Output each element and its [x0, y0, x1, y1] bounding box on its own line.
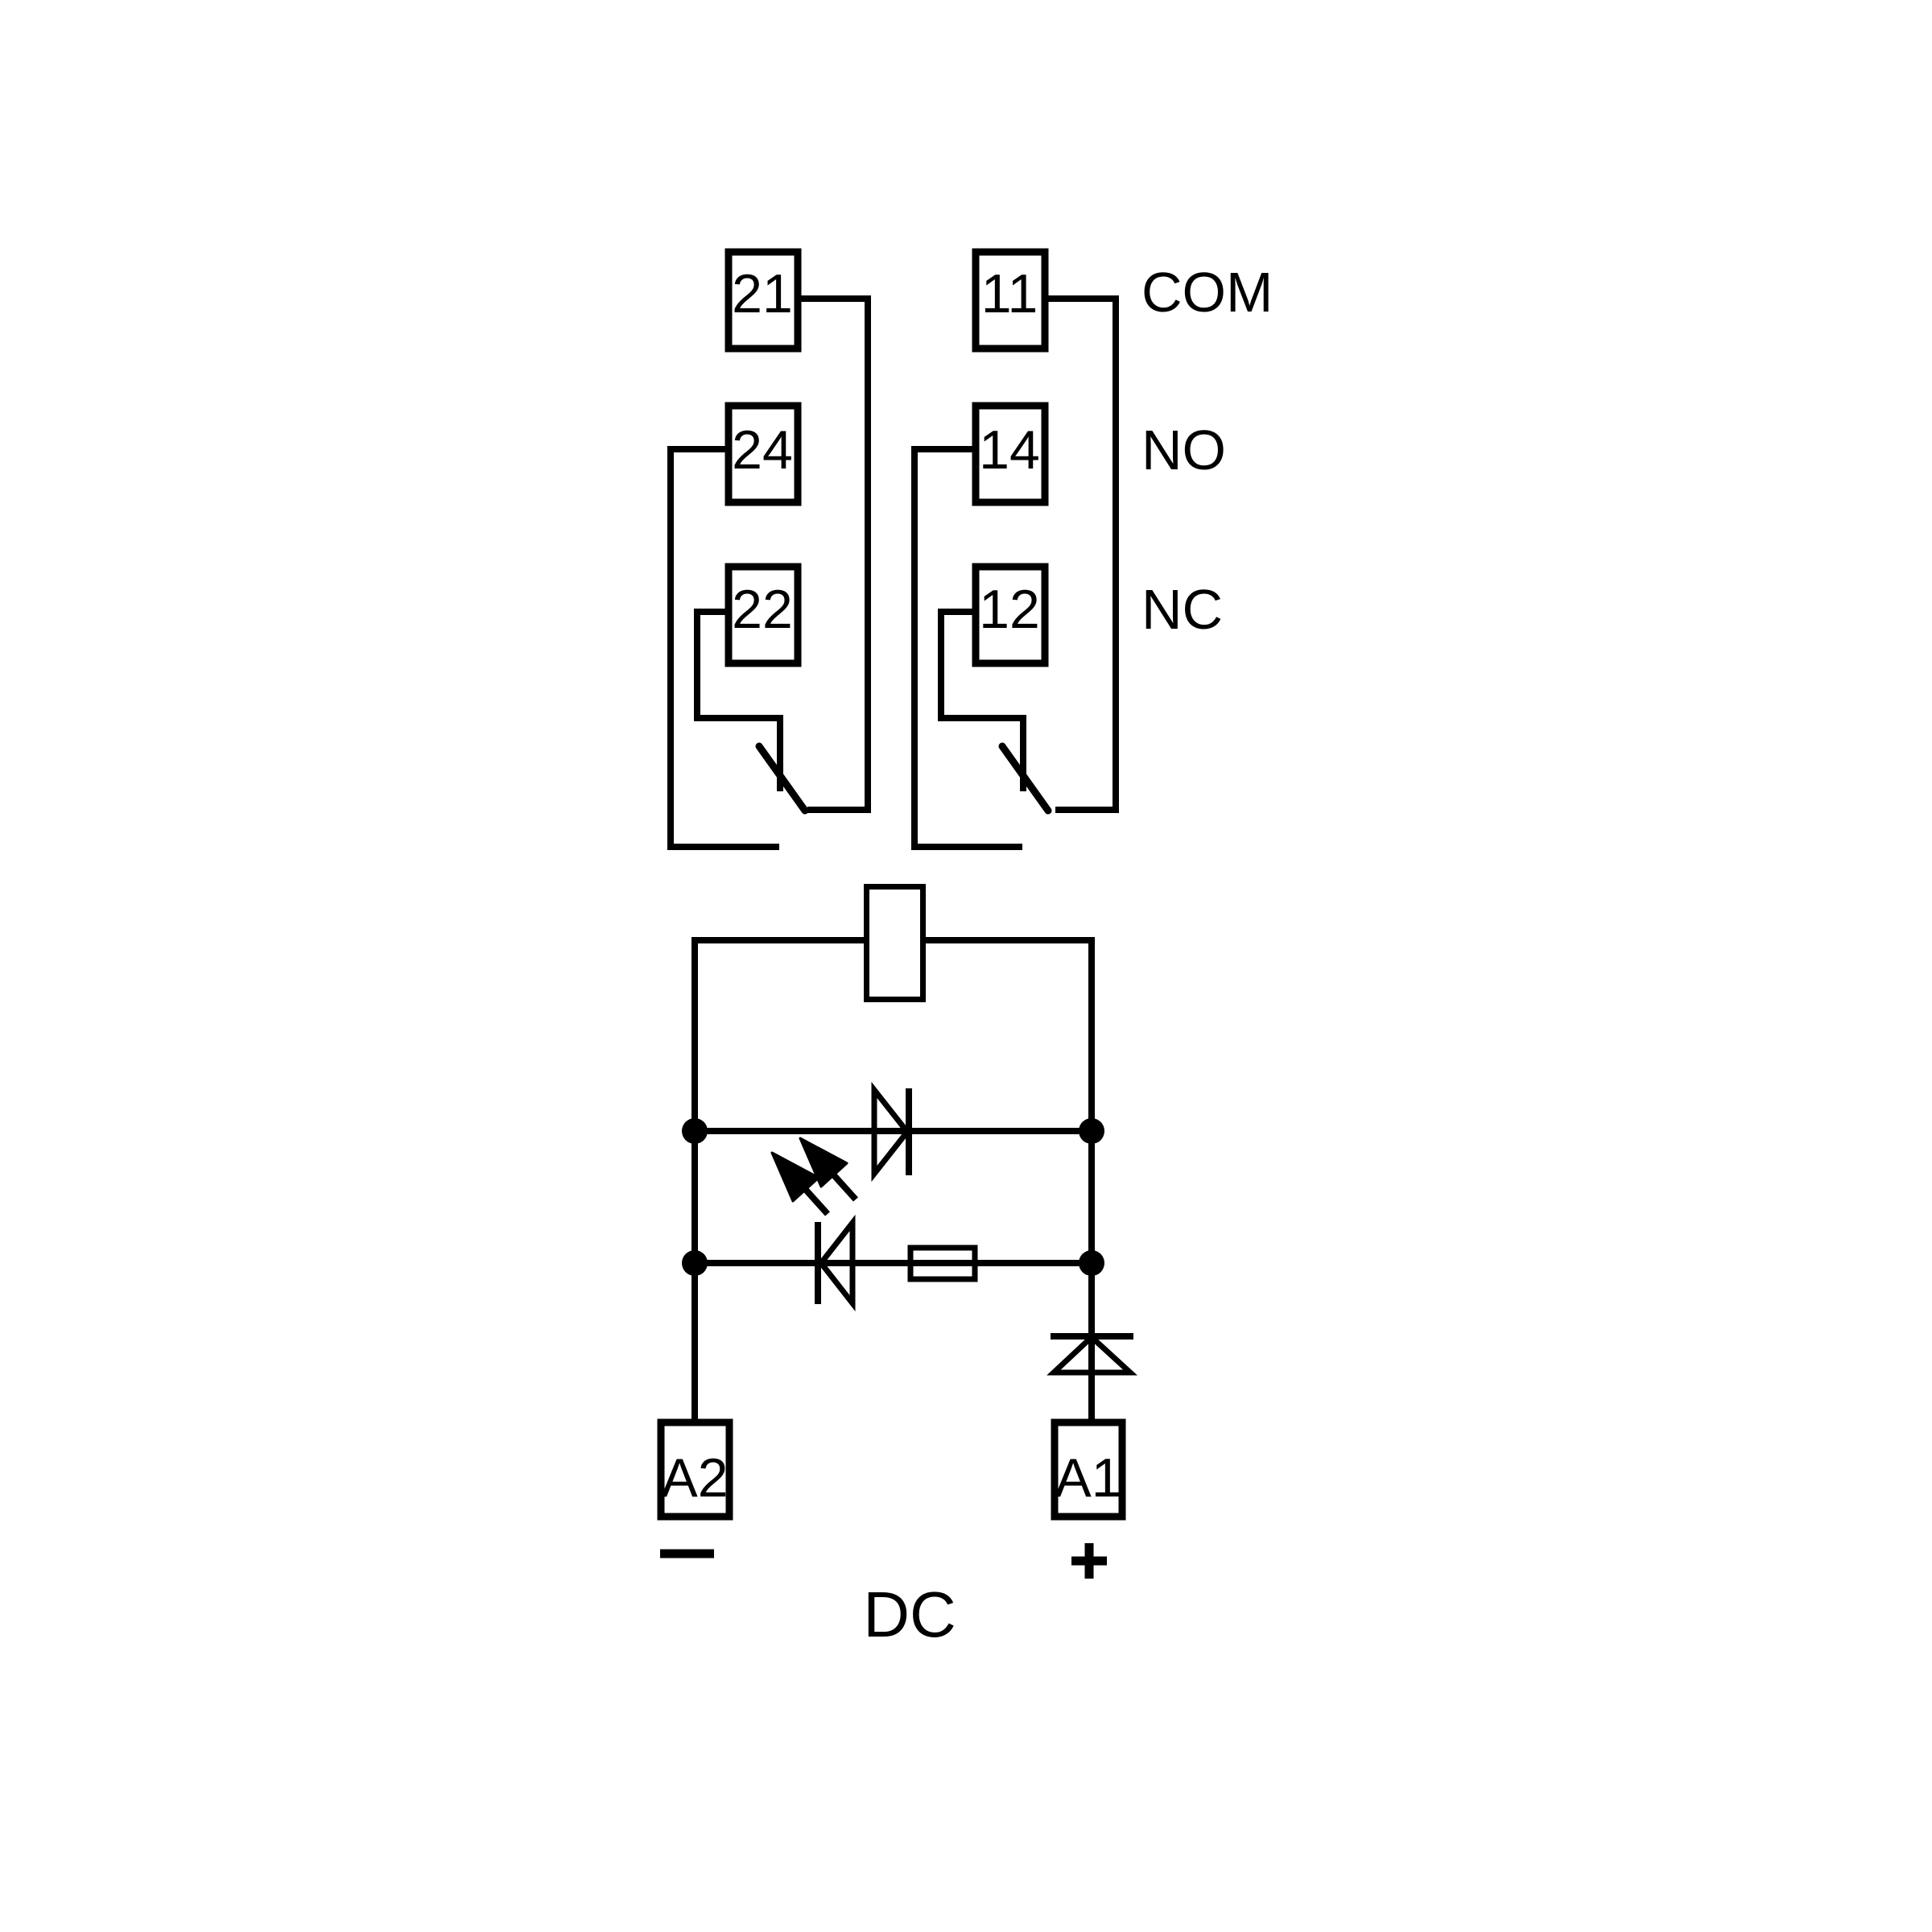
- svg-text:21: 21: [732, 263, 793, 324]
- svg-text:COM: COM: [1141, 261, 1273, 324]
- svg-text:A2: A2: [661, 1447, 728, 1509]
- wire 14 NO branch: [914, 449, 1022, 847]
- protection diode V3: [1051, 1336, 1133, 1373]
- wire coil left to A2 branch: [695, 940, 864, 1419]
- wire 12 NC branch with fixed contact stub: [941, 612, 1023, 791]
- svg-text:11: 11: [981, 263, 1038, 324]
- wire lower branch: [695, 1260, 1092, 1266]
- wire upper branch: [695, 1128, 1092, 1134]
- wire 22 NC branch with fixed contact stub: [697, 612, 780, 791]
- LED V2: [818, 1222, 852, 1304]
- relay coil K1: [867, 887, 923, 1000]
- moving contact blade (pole 2): [759, 746, 805, 811]
- terminal box 22: [729, 567, 798, 663]
- terminal box 11: [976, 252, 1045, 349]
- LED emission arrow 1: [800, 1138, 856, 1199]
- svg-text:NO: NO: [1141, 419, 1226, 481]
- svg-text:DC: DC: [863, 1579, 956, 1650]
- svg-text:NC: NC: [1141, 578, 1223, 641]
- svg-text:12: 12: [979, 579, 1040, 640]
- terminal box 14: [976, 406, 1045, 502]
- svg-text:14: 14: [979, 419, 1040, 481]
- moving contact blade (pole 1): [1002, 746, 1048, 811]
- LED emission arrow 2: [772, 1153, 828, 1214]
- diode V1: [874, 1088, 909, 1175]
- wire 11 to COM rail: [1048, 299, 1116, 810]
- terminal box 24: [729, 406, 798, 502]
- polarity minus: [660, 1550, 714, 1558]
- junction node upper left: [682, 1118, 708, 1144]
- terminal box A1: [1055, 1422, 1122, 1517]
- terminal box 12: [976, 567, 1045, 663]
- terminal box A2: [661, 1422, 729, 1517]
- resistor R1: [910, 1248, 975, 1279]
- polarity plus: [1071, 1543, 1107, 1579]
- junction node lower left: [682, 1250, 708, 1276]
- wire 24 NO branch: [671, 449, 779, 847]
- terminal box 21: [729, 252, 798, 349]
- wire coil right to A1 branch: [926, 940, 1092, 1419]
- svg-text:24: 24: [732, 419, 793, 481]
- junction node upper right: [1079, 1118, 1104, 1144]
- junction node lower right: [1079, 1250, 1104, 1276]
- svg-text:22: 22: [732, 579, 793, 640]
- wire 21 to COM rail: [801, 299, 868, 810]
- svg-text:A1: A1: [1055, 1447, 1121, 1509]
